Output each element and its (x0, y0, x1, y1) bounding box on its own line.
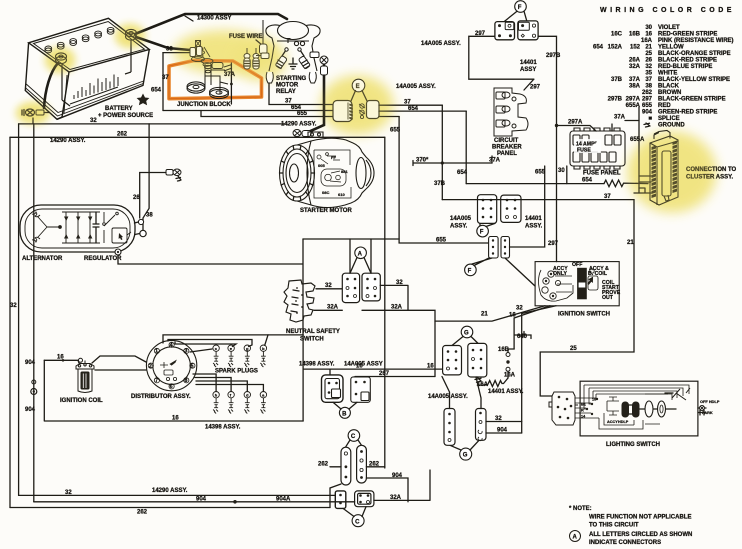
svg-text:32A: 32A (390, 495, 402, 501)
vertical 904 left (33, 124, 35, 502)
wire 37A breaker down (491, 156, 493, 163)
svg-text:ASSY: ASSY (520, 67, 536, 73)
svg-text:655: 655 (297, 111, 308, 117)
highlight junction block area (174, 31, 274, 73)
battery caps (45, 27, 114, 52)
svg-text:655: 655 (535, 170, 546, 176)
wire 16 left loop (44, 360, 303, 421)
svg-text:RED-GREEN STRIPE: RED-GREEN STRIPE (658, 32, 717, 38)
svg-text:32A: 32A (391, 305, 403, 311)
svg-text:38: 38 (645, 84, 652, 90)
svg-text:38A: 38A (629, 84, 641, 90)
wire 16 riser G2 (442, 377, 481, 409)
connector F circle lower (465, 264, 477, 276)
svg-text:16: 16 (645, 32, 652, 38)
svg-text:37A: 37A (629, 77, 641, 83)
svg-text:14A005 ASSY.: 14A005 ASSY. (396, 84, 436, 90)
wires 32 904 from G bottom (486, 421, 522, 423)
svg-text:F: F (518, 5, 522, 11)
wire 654 with resistor to cluster (466, 183, 604, 185)
svg-text:655A: 655A (630, 137, 645, 143)
connector 38 pair (190, 48, 196, 57)
connector G blocks top (443, 343, 487, 377)
svg-text:ASSY.: ASSY. (525, 224, 543, 230)
svg-text:610: 610 (338, 192, 345, 197)
svg-text:904: 904 (642, 110, 653, 116)
svg-text:16: 16 (356, 364, 363, 370)
svg-text:6: 6 (170, 384, 173, 390)
highlighter overlay tint (17, 25, 714, 210)
ground connector bottom-left (22, 109, 49, 116)
svg-text:654: 654 (593, 45, 604, 51)
alternator windings (32, 212, 61, 242)
svg-text:904: 904 (196, 496, 207, 502)
star symbol (137, 94, 150, 106)
cluster stubs (634, 176, 651, 193)
connector F circle top (515, 1, 527, 13)
svg-text:RED-BLUE STRIPE: RED-BLUE STRIPE (658, 64, 712, 70)
svg-text:37B: 37B (434, 181, 446, 187)
svg-text:005: 005 (318, 163, 325, 168)
highlight connector E (321, 76, 393, 134)
A block risers (350, 239, 371, 273)
resistance wire 16B 16A (506, 353, 510, 357)
svg-text:38: 38 (166, 47, 173, 53)
starter cable connector (293, 130, 311, 137)
wire 655 E down (399, 117, 488, 244)
junction block body (187, 63, 232, 99)
svg-text:297: 297 (642, 97, 653, 103)
lighting switch output (698, 407, 706, 409)
svg-text:37A: 37A (489, 158, 501, 164)
svg-text:655: 655 (436, 238, 447, 244)
lighting switch internals (575, 385, 689, 429)
ignition coil (76, 361, 94, 393)
svg-text:LIGHTING SWITCH: LIGHTING SWITCH (606, 442, 660, 448)
svg-text:FUSE PANEL: FUSE PANEL (583, 171, 621, 177)
starter drum ticks (280, 146, 315, 201)
connector G circle bottom (460, 448, 472, 460)
wires neutral switch 32 32A (316, 288, 342, 290)
connector A circle (355, 247, 367, 259)
connector A blocks (342, 273, 380, 302)
bullet connectors under fuse wire (244, 48, 259, 69)
svg-text:262: 262 (369, 461, 380, 467)
svg-text:14A005 ASSY.: 14A005 ASSY. (428, 394, 468, 400)
wire 37A fuse to cluster (612, 121, 639, 132)
wire 654 E to drop (379, 110, 466, 112)
svg-text:BLACK-ORANGE STRIPE: BLACK-ORANGE STRIPE (658, 51, 731, 57)
svg-text:32: 32 (325, 283, 332, 289)
svg-text:38: 38 (146, 213, 153, 219)
svg-text:BLACK-GREEN STRIPE: BLACK-GREEN STRIPE (658, 97, 726, 103)
resistor 654 (604, 180, 648, 187)
svg-text:STARTING: STARTING (276, 76, 307, 82)
wire 37 E to drop (379, 104, 442, 106)
wire 655 junction to E (201, 111, 333, 117)
svg-text:32: 32 (645, 64, 652, 70)
svg-text:16: 16 (427, 364, 434, 370)
svg-text:NEUTRAL SAFETY: NEUTRAL SAFETY (286, 329, 340, 335)
svg-text:14290 ASSY.: 14290 ASSY. (281, 122, 317, 128)
svg-text:OUT: OUT (602, 295, 614, 301)
svg-text:26: 26 (645, 58, 652, 64)
svg-text:FF: FF (331, 155, 336, 160)
svg-text:16: 16 (509, 313, 516, 319)
svg-text:C: C (355, 519, 360, 525)
relay contact cylinders (275, 48, 310, 69)
wire 655 to fuse panel (510, 166, 545, 247)
svg-text:21: 21 (481, 312, 488, 318)
svg-text:CIRCUIT: CIRCUIT (494, 138, 519, 144)
svg-text:904: 904 (25, 360, 36, 366)
wire 26 (140, 173, 166, 219)
svg-text:14A005 ASSY.: 14A005 ASSY. (421, 41, 461, 47)
splice and ground near 26 (166, 169, 181, 181)
svg-text:G: G (463, 453, 468, 459)
neutral safety switch (284, 280, 315, 322)
wire 37 relay to E (269, 83, 333, 105)
svg-text:14290 ASSY.: 14290 ASSY. (152, 488, 188, 494)
svg-text:654: 654 (457, 170, 468, 176)
svg-text:37B: 37B (611, 77, 623, 83)
wire 297 U under blocks (469, 36, 534, 79)
wire 38 to regulator (143, 124, 149, 230)
svg-text:14A005: 14A005 (450, 216, 472, 222)
svg-text:37: 37 (285, 99, 292, 105)
lighting switch contacts (622, 402, 630, 418)
svg-text:SPARK PLUGS: SPARK PLUGS (215, 369, 258, 375)
svg-text:297A: 297A (626, 97, 641, 103)
diagonal to ignition (505, 258, 535, 286)
svg-text:GROUND: GROUND (658, 123, 685, 129)
svg-text:37: 37 (645, 77, 652, 83)
starter motor (280, 132, 375, 208)
svg-text:ASSY.: ASSY. (450, 224, 468, 230)
wire 32A bottom (374, 470, 430, 500)
vertical bus right of plugs (302, 335, 304, 421)
svg-text:VIOLET: VIOLET (658, 25, 680, 31)
wire 32 bottom run (19, 494, 336, 496)
svg-text:14401: 14401 (520, 60, 537, 66)
connector G circle top (461, 326, 473, 338)
wires 16 and 267 at B (303, 369, 443, 375)
svg-text:16B: 16B (498, 347, 510, 353)
svg-text:A: A (573, 535, 578, 541)
battery front panel line (62, 40, 131, 106)
svg-text:654: 654 (151, 88, 162, 94)
bulb connector on heavy cable (320, 56, 328, 75)
lighting switch box (580, 381, 698, 436)
svg-text:32: 32 (10, 303, 17, 309)
wire regulator to 655 line (118, 239, 303, 335)
svg-text:37: 37 (162, 75, 169, 81)
alternator capacitor (93, 212, 99, 243)
wire 37 long run (442, 199, 634, 201)
svg-text:GREEN-RED STRIPE: GREEN-RED STRIPE (658, 110, 717, 116)
svg-text:297A: 297A (568, 120, 583, 126)
wire 30 (566, 166, 568, 184)
svg-text:655: 655 (642, 103, 653, 109)
svg-text:16A: 16A (641, 38, 653, 44)
svg-text:TO THIS CIRCUIT: TO THIS CIRCUIT (589, 523, 639, 529)
svg-text:B1: B1 (581, 403, 586, 407)
svg-text:152: 152 (630, 45, 641, 51)
svg-text:+ POWER SOURCE: + POWER SOURCE (98, 113, 153, 119)
svg-text:297: 297 (530, 85, 541, 91)
wire 37 drop with 370 junction (441, 105, 443, 199)
svg-text:4: 4 (170, 343, 173, 349)
regulator input terminals (138, 219, 143, 224)
battery (25, 18, 149, 119)
starting motor relay body (266, 22, 320, 72)
wire 14300 from battery to relay (135, 14, 287, 34)
svg-text:37: 37 (404, 100, 411, 106)
svg-text:904: 904 (25, 407, 36, 413)
svg-text:1: 1 (155, 349, 158, 355)
wire 640 hook (514, 332, 531, 339)
alternator diode bridge (62, 212, 100, 243)
svg-text:21: 21 (627, 240, 634, 246)
svg-text:32: 32 (495, 416, 502, 422)
svg-text:37A: 37A (224, 72, 236, 78)
wire 32 ground run (19, 123, 285, 125)
wire 297B vertical (538, 36, 556, 261)
connector F circle upper pair (477, 225, 489, 237)
svg-text:F: F (468, 269, 472, 275)
svg-text:297B: 297B (546, 53, 561, 59)
svg-text:INDICATE CONNECTORS: INDICATE CONNECTORS (589, 540, 661, 546)
wire 21 vertical (540, 200, 634, 396)
svg-text:BREAKER: BREAKER (492, 145, 522, 151)
svg-text:640: 640 (517, 334, 528, 340)
fuse panel (570, 128, 625, 169)
svg-text:35: 35 (645, 71, 652, 77)
wire 655 bus over A (303, 238, 399, 240)
ignition key cylinder (577, 268, 587, 300)
svg-text:3: 3 (185, 349, 188, 355)
svg-text:904A: 904A (276, 496, 291, 502)
svg-text:297: 297 (475, 31, 486, 37)
svg-text:ALL LETTERS CIRCLED AS SHOWN: ALL LETTERS CIRCLED AS SHOWN (589, 532, 692, 538)
svg-text:5: 5 (191, 363, 194, 369)
svg-text:262: 262 (117, 132, 128, 138)
relay side terminals (256, 52, 319, 59)
svg-text:STARTER MOTOR: STARTER MOTOR (300, 208, 352, 214)
circuit breaker panel (494, 88, 528, 136)
connector C circle top (348, 430, 360, 442)
svg-text:37: 37 (604, 194, 611, 200)
svg-text:32A: 32A (327, 305, 339, 311)
svg-text:25: 25 (645, 51, 652, 57)
svg-text:32A: 32A (629, 64, 641, 70)
wire battery right post to junction 38 bolt (136, 37, 190, 50)
wire 262 drop right of A (384, 137, 386, 468)
battery side hatch marks (70, 75, 118, 105)
spark plug letters (215, 346, 265, 398)
svg-text:REGULATOR: REGULATOR (84, 256, 122, 262)
highlight battery left terminal (45, 47, 75, 73)
svg-text:G: G (464, 331, 469, 337)
plug wires bottom row (193, 374, 216, 392)
svg-text:MOTOR: MOTOR (276, 83, 299, 89)
svg-text:14398 ASSY.: 14398 ASSY. (205, 425, 241, 431)
spark plugs bottom row (213, 392, 219, 414)
svg-text:18: 18 (592, 398, 596, 402)
lighting switch lever (672, 388, 690, 400)
svg-text:IGNITION SWITCH: IGNITION SWITCH (558, 312, 610, 318)
svg-text:R: R (581, 409, 584, 413)
wire 655A vertical (638, 107, 640, 193)
connector B circle (339, 407, 350, 418)
svg-text:32: 32 (90, 118, 97, 124)
svg-text:JUNCTION BLOCK: JUNCTION BLOCK (177, 102, 231, 108)
svg-text:2: 2 (149, 363, 152, 369)
highlight battery right terminal (115, 24, 145, 48)
svg-text:25: 25 (570, 346, 577, 352)
wire 262 bottom riser (330, 484, 341, 508)
svg-text:14300 ASSY: 14300 ASSY (197, 16, 231, 22)
svg-text:A: A (358, 251, 363, 257)
highlight battery ground (16, 102, 50, 124)
junction block bolt with washers (192, 41, 214, 67)
connector E circle (352, 79, 365, 92)
wire 654 junction to E (163, 110, 333, 112)
ignition switch exit wires (435, 306, 545, 321)
wire 904 bottom run (34, 501, 355, 503)
svg-text:297: 297 (548, 241, 559, 247)
wire 904 at C (366, 478, 408, 502)
svg-text:262: 262 (137, 510, 148, 516)
wire 32 A to right (380, 285, 408, 310)
wiring color code table (593, 25, 734, 129)
svg-text:654: 654 (408, 106, 419, 112)
relay internal ground (289, 58, 297, 69)
svg-text:OFF: OFF (572, 262, 582, 268)
svg-text:WIRE FUNCTION NOT APPLICABLE: WIRE FUNCTION NOT APPLICABLE (589, 515, 691, 521)
highlight cluster connector (628, 132, 716, 212)
svg-text:655: 655 (390, 128, 401, 134)
svg-text:FUSE: FUSE (577, 148, 591, 154)
wire coil to distributor (92, 356, 146, 370)
svg-text:HDLP: HDLP (618, 420, 629, 424)
svg-text:262: 262 (318, 461, 329, 467)
ignition switch internals (539, 269, 599, 301)
ground symbol in color code (644, 123, 650, 127)
svg-text:BATTERY: BATTERY (105, 106, 133, 112)
svg-text:ONLY: ONLY (553, 271, 567, 277)
plug wires top row (163, 335, 303, 343)
svg-text:YELLOW: YELLOW (658, 45, 684, 51)
wire 654 drop to F blocks (465, 111, 467, 184)
ignition switch box (535, 262, 619, 306)
wire 655 F line junction blocks (489, 237, 510, 259)
svg-text:■: ■ (648, 116, 652, 122)
connector C circle bottom (352, 515, 364, 527)
svg-text:OFF HDLP: OFF HDLP (700, 399, 720, 404)
svg-text:SPLICE: SPLICE (658, 116, 680, 122)
starter inner detail (314, 150, 351, 198)
fuse wire component (260, 20, 268, 58)
svg-text:16A: 16A (504, 373, 516, 379)
svg-text:32: 32 (65, 490, 72, 496)
svg-text:14401 ASSY.: 14401 ASSY. (488, 389, 524, 395)
ground under G right block (475, 377, 481, 382)
svg-text:16C: 16C (611, 32, 623, 38)
svg-text:F: F (480, 230, 484, 236)
svg-text:8: 8 (185, 378, 188, 384)
svg-text:16: 16 (172, 416, 179, 422)
svg-text:654: 654 (582, 178, 593, 184)
svg-text:152A: 152A (608, 45, 623, 51)
svg-text:B: B (342, 411, 347, 417)
junction 297A (555, 124, 558, 127)
svg-text:267: 267 (379, 371, 390, 377)
svg-text:904: 904 (497, 428, 508, 434)
regulator bottom terminal (115, 249, 121, 255)
vertical 262 left (9, 137, 11, 507)
connector blocks 14A005/14401 mid (478, 195, 522, 224)
svg-text:WIRING COLOR CODE: WIRING COLOR CODE (600, 7, 735, 14)
svg-text:30: 30 (558, 168, 565, 174)
cluster connector (650, 131, 678, 206)
wire 37A vertical from junction connector (230, 63, 232, 104)
distributor (146, 340, 196, 390)
orange highlighted junction block circuit path (169, 61, 262, 99)
connector blocks under F top (495, 21, 538, 40)
svg-text:IGNITION COIL: IGNITION COIL (60, 398, 103, 404)
svg-text:26: 26 (133, 195, 140, 201)
svg-text:14398 ASSY.: 14398 ASSY. (299, 362, 335, 368)
relay bottom terminals (266, 72, 316, 83)
wire 38 stub (163, 52, 190, 54)
vertical 32 left (18, 124, 20, 496)
connector C oval blocks (341, 445, 366, 485)
battery terminal post left (56, 53, 67, 64)
svg-text:14290 ASSY.: 14290 ASSY. (50, 138, 86, 144)
svg-text:297B: 297B (608, 97, 623, 103)
svg-text:37A: 37A (614, 115, 626, 121)
svg-text:PINK (RESISTANCE WIRE): PINK (RESISTANCE WIRE) (658, 38, 734, 44)
svg-text:26A: 26A (629, 58, 641, 64)
regulator contacts (103, 212, 131, 243)
svg-text:32: 32 (396, 280, 403, 286)
battery terminal post right (126, 29, 137, 40)
connector E blocks (333, 101, 379, 122)
svg-text:370*: 370* (416, 158, 429, 164)
svg-text:7: 7 (155, 378, 158, 384)
cluster teeth left (652, 141, 678, 199)
svg-text:21: 21 (645, 45, 652, 51)
svg-text:14401: 14401 (525, 216, 542, 222)
svg-text:655A: 655A (626, 103, 641, 109)
wire 262 bottom run (10, 507, 330, 509)
wires 262 at C (330, 466, 341, 468)
battery cable to ground (44, 63, 58, 108)
heavy cable relay to starter (306, 58, 324, 133)
svg-text:30: 30 (645, 25, 652, 31)
wire 16 to coil (44, 360, 79, 363)
svg-text:881: 881 (341, 169, 348, 174)
svg-text:ALTERNATOR: ALTERNATOR (22, 256, 63, 262)
svg-text:904: 904 (392, 473, 403, 479)
svg-text:08C: 08C (322, 190, 329, 195)
svg-text:* NOTE:: * NOTE: (569, 506, 592, 512)
lighting switch connector plate (549, 392, 578, 425)
svg-text:BROWN: BROWN (658, 90, 681, 96)
svg-text:RELAY: RELAY (276, 89, 296, 95)
connector B blocks (322, 375, 344, 402)
